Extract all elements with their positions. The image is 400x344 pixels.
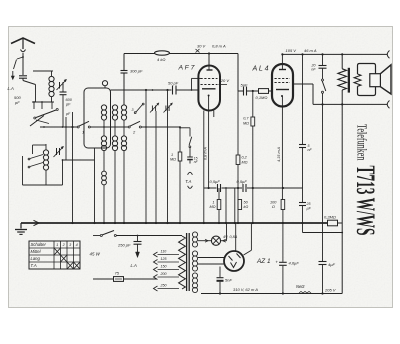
svg-text:200: 200: [160, 272, 167, 276]
svg-text:4: 4: [76, 243, 78, 247]
svg-text:L.A: L.A: [131, 263, 137, 268]
svg-text:A F 7: A F 7: [178, 65, 195, 72]
svg-text:105 V: 105 V: [286, 48, 297, 53]
svg-text:45 W: 45 W: [90, 252, 101, 257]
svg-text:Telefunken: Telefunken: [354, 124, 369, 161]
svg-text:MΩ: MΩ: [170, 158, 176, 162]
svg-text:250 pF: 250 pF: [117, 243, 131, 248]
svg-text:250: 250: [160, 283, 167, 287]
svg-text:0,5µF: 0,5µF: [237, 179, 248, 184]
svg-text:4,6µF: 4,6µF: [289, 261, 300, 266]
svg-text:MΩ: MΩ: [243, 122, 249, 126]
svg-text:300 pF: 300 pF: [130, 69, 143, 74]
svg-text:46 m A: 46 m A: [304, 48, 317, 53]
svg-text:1: 1: [171, 153, 173, 157]
svg-text:30 V: 30 V: [197, 44, 206, 49]
svg-text:205 V: 205 V: [324, 288, 336, 293]
svg-text:150: 150: [161, 264, 167, 268]
svg-text:Ω: Ω: [272, 205, 275, 209]
svg-text:4µF: 4µF: [328, 262, 336, 267]
svg-text:MΩ: MΩ: [209, 205, 215, 209]
svg-text:0,2: 0,2: [242, 156, 248, 160]
svg-text:0,8 m A: 0,8 m A: [204, 147, 208, 160]
svg-text:T713 W/WS: T713 W/WS: [351, 166, 380, 236]
svg-text:0,1MΩ: 0,1MΩ: [256, 95, 268, 100]
svg-text:kΩ: kΩ: [244, 205, 249, 209]
svg-text:4,15 m A: 4,15 m A: [277, 146, 281, 162]
svg-text:0,8 m A: 0,8 m A: [212, 44, 226, 49]
svg-text:0,7: 0,7: [243, 117, 249, 121]
svg-text:3: 3: [132, 108, 134, 112]
svg-text:pF: pF: [65, 112, 71, 116]
svg-text:310 V, 62 m A: 310 V, 62 m A: [233, 287, 258, 292]
svg-text:Mittel: Mittel: [31, 249, 42, 254]
svg-text:0,2MΩ: 0,2MΩ: [324, 215, 336, 220]
svg-text:0,5µF: 0,5µF: [210, 179, 221, 184]
svg-text:L.A: L.A: [8, 86, 14, 91]
svg-text:75: 75: [115, 271, 120, 276]
svg-text:T.A: T.A: [31, 263, 37, 268]
svg-text:100: 100: [270, 201, 277, 205]
svg-text:pF: pF: [65, 103, 71, 107]
svg-text:110: 110: [161, 249, 167, 253]
svg-text:5nF: 5nF: [241, 83, 248, 88]
svg-text:25: 25: [306, 202, 311, 206]
svg-text:pF: pF: [14, 100, 20, 105]
svg-text:AZ 1: AZ 1: [256, 258, 271, 265]
svg-text:600: 600: [66, 98, 73, 102]
svg-text:A L 4: A L 4: [252, 66, 269, 73]
svg-text:Netz: Netz: [296, 284, 306, 289]
svg-text:5nF: 5nF: [225, 278, 232, 283]
svg-text:125: 125: [161, 257, 167, 261]
svg-text:Schalter: Schalter: [31, 242, 47, 247]
svg-text:50 pF: 50 pF: [168, 81, 179, 86]
svg-text:MΩ: MΩ: [242, 161, 248, 165]
svg-text:1: 1: [212, 201, 214, 205]
svg-text:4 kΩ: 4 kΩ: [157, 57, 165, 62]
svg-text:1: 1: [56, 243, 58, 247]
svg-text:20 V: 20 V: [220, 78, 230, 83]
svg-text:T.A: T.A: [185, 179, 191, 184]
svg-text:Lang: Lang: [31, 256, 41, 261]
